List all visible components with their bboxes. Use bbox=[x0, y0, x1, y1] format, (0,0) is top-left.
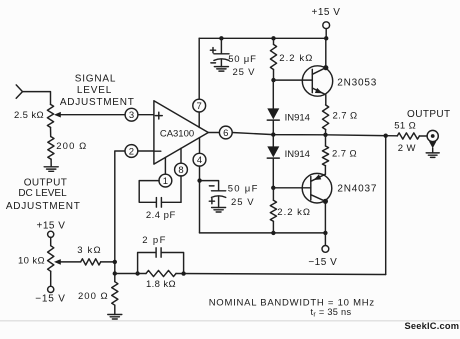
transistor Q1 2N3053 body bbox=[302, 66, 332, 96]
ground under R5 bbox=[108, 314, 122, 316]
wire R11 to jack bbox=[419, 135, 427, 137]
svg-text:7: 7 bbox=[197, 101, 202, 112]
svg-text:2 W: 2 W bbox=[398, 143, 416, 154]
svg-text:2: 2 bbox=[129, 146, 134, 157]
wire base node to Q2 bbox=[273, 187, 311, 189]
svg-text:ADJUSTMENT: ADJUSTMENT bbox=[60, 97, 135, 108]
diode D2 1N914 bbox=[267, 146, 279, 157]
wire jack to ground bbox=[432, 148, 434, 153]
capacitor C4 top plate bbox=[212, 190, 226, 192]
resistor R9 2.7 ohm bbox=[322, 146, 328, 166]
junction node wiper-R4 bbox=[113, 260, 117, 264]
potentiometer R1 2.5 k-ohm body bbox=[47, 104, 53, 127]
pin 6 bbox=[219, 126, 232, 139]
pin 7 bbox=[193, 99, 206, 112]
terminal -15V mid bbox=[322, 246, 329, 253]
svg-text:IN914: IN914 bbox=[285, 149, 310, 160]
svg-text:4: 4 bbox=[197, 155, 202, 166]
svg-text:+15 V: +15 V bbox=[37, 221, 66, 232]
potentiometer R3 wiper arrow bbox=[54, 259, 61, 265]
svg-text:50 μF: 50 μF bbox=[228, 54, 256, 65]
terminal +15V top bbox=[323, 22, 330, 29]
transistor Q1 emitter bbox=[312, 88, 326, 105]
wire R2 to ground bbox=[50, 159, 52, 167]
capacitor C1 curved plate bbox=[214, 59, 229, 61]
output jack J2 outer bbox=[427, 130, 438, 141]
wire R7 to base node bbox=[273, 70, 275, 81]
wire pin2 vertical line bbox=[115, 151, 125, 282]
junction rail Q1 bbox=[324, 36, 328, 40]
wire R4 to node bbox=[101, 261, 115, 263]
resistor R6 1.8 kohm bbox=[146, 270, 176, 276]
svg-text:3 kΩ: 3 kΩ bbox=[77, 245, 102, 256]
wire rail to C1 bbox=[220, 38, 222, 54]
svg-text:2N4037: 2N4037 bbox=[337, 184, 377, 195]
junction box left bbox=[135, 271, 139, 275]
svg-text:51 Ω: 51 Ω bbox=[394, 120, 416, 131]
svg-text:SIGNAL: SIGNAL bbox=[75, 73, 116, 84]
wire R9 to Q2 emitter bbox=[324, 166, 326, 175]
op-amp minus input sign bbox=[154, 150, 161, 152]
wire D2 to base node Q2 bbox=[272, 158, 274, 188]
capacitor C1 plus sign bbox=[210, 49, 215, 51]
wire D1 to junction bbox=[272, 120, 274, 135]
svg-text:2N3053: 2N3053 bbox=[337, 78, 377, 89]
junction rail R7 bbox=[271, 36, 275, 40]
junction rail C1 bbox=[219, 36, 223, 40]
pin 1 bbox=[159, 174, 172, 187]
output jack J2 sleeve bbox=[429, 141, 436, 148]
capacitor C4 curved plate bbox=[212, 196, 226, 198]
scan artifact line bbox=[0, 320, 460, 322]
ground under R2 bbox=[44, 166, 58, 168]
wire pin2 to op-amp bbox=[138, 150, 154, 152]
junction base Q1 bbox=[271, 78, 275, 82]
pin 2 bbox=[125, 145, 138, 158]
ground under jack bbox=[426, 152, 439, 154]
diode D1 1N914 bbox=[267, 108, 279, 119]
wire node to feedback box bbox=[115, 273, 146, 275]
svg-text:6: 6 bbox=[223, 128, 228, 139]
transistor Q2 emitter arrow bbox=[314, 174, 322, 180]
junction collector blob Q2 bbox=[323, 199, 328, 204]
svg-text:OUTPUT: OUTPUT bbox=[24, 177, 68, 188]
junction box right bbox=[181, 271, 185, 275]
svg-text:8: 8 bbox=[178, 165, 183, 176]
junction rail Q2 bbox=[323, 231, 327, 235]
junction emitters mid bbox=[323, 133, 327, 137]
wire C4 to ground bbox=[218, 197, 220, 208]
wire R6 to output feedback bbox=[176, 274, 386, 275]
junction collector blob Q1 bbox=[323, 65, 328, 70]
svg-text:50 μF: 50 μF bbox=[228, 183, 259, 194]
resistor R4 3 kohm bbox=[81, 259, 101, 265]
wire R10 to rail bbox=[272, 221, 274, 233]
resistor R10 2.2 kohm bbox=[270, 200, 276, 221]
svg-text:2.5 kΩ: 2.5 kΩ bbox=[14, 110, 44, 121]
resistor R2 200 ohm bbox=[48, 137, 54, 160]
wire R8 to node bbox=[325, 130, 327, 135]
wire pin8 to triangle bbox=[180, 148, 182, 163]
wire +15 terminal to pot R3 bbox=[50, 237, 52, 245]
wire node to R9 bbox=[325, 135, 327, 146]
wire pin4 to C4 bbox=[200, 181, 219, 191]
op-amp plus input sign bbox=[155, 115, 162, 117]
wire wiper to R4 bbox=[61, 261, 81, 263]
transistor Q1 emitter arrow bbox=[315, 88, 323, 93]
ground under C1 bbox=[214, 66, 228, 68]
capacitor C4 plus sign bbox=[209, 200, 214, 202]
transistor Q1 base bar bbox=[311, 69, 313, 92]
wire pin3 to op-amp bbox=[138, 114, 154, 116]
svg-text:IN914: IN914 bbox=[285, 112, 310, 123]
transistor Q1 collector bbox=[312, 38, 326, 74]
svg-text:2.4 pF: 2.4 pF bbox=[146, 210, 176, 221]
svg-text:2.7 Ω: 2.7 Ω bbox=[332, 149, 357, 160]
wire pin7 to triangle bbox=[198, 112, 200, 128]
resistor R5 200 ohm bbox=[112, 282, 118, 306]
ground under C4 bbox=[212, 207, 226, 209]
wire cap C2 to pin8 bbox=[162, 201, 181, 203]
wire pin6 to output node bbox=[232, 133, 397, 136]
transistor Q2 base bar bbox=[310, 177, 312, 200]
wire pin4 to triangle bbox=[199, 138, 201, 154]
transistor Q2 emitter bbox=[311, 174, 326, 181]
capacitor C2 2.4 pF bbox=[155, 198, 157, 208]
terminal -15V left bbox=[48, 286, 54, 292]
wire cap branch right bbox=[161, 253, 183, 274]
capacitor C3 2 pF bbox=[155, 248, 157, 257]
svg-text:+15 V: +15 V bbox=[312, 7, 341, 18]
resistor R11 51 ohm bbox=[397, 133, 419, 139]
wire feedback vertical bbox=[385, 136, 387, 275]
wire base node to Q1 bbox=[274, 79, 313, 81]
pin 8 bbox=[175, 163, 188, 176]
capacitor C1 minus sign bbox=[211, 62, 216, 64]
svg-text:1: 1 bbox=[163, 176, 168, 187]
transistor Q2 2N4037 body bbox=[302, 173, 332, 203]
wire rail to R7 bbox=[273, 38, 275, 44]
input jack J1 bbox=[16, 85, 22, 98]
svg-text:−15 V: −15 V bbox=[308, 257, 337, 268]
wire pin7 to rail bbox=[198, 38, 200, 99]
wire junction to D2 bbox=[272, 135, 274, 147]
svg-text:200 Ω: 200 Ω bbox=[78, 291, 109, 302]
resistor R7 2.2 kohm bbox=[270, 44, 276, 69]
wire rail to -15 terminal bbox=[324, 233, 326, 246]
svg-text:−15 V: −15 V bbox=[35, 293, 65, 304]
wire cap branch left bbox=[138, 253, 156, 274]
svg-text:3: 3 bbox=[129, 110, 134, 121]
svg-text:25 V: 25 V bbox=[233, 67, 256, 78]
svg-text:25 V: 25 V bbox=[231, 197, 255, 208]
svg-text:SeekIC.com: SeekIC.com bbox=[405, 321, 460, 331]
transistor Q2 collector bbox=[311, 195, 326, 233]
capacitor C4 minus sign bbox=[209, 185, 214, 187]
wire base node to R10 bbox=[272, 188, 274, 201]
wire pot R3 to -15 terminal bbox=[50, 271, 52, 286]
svg-text:2.7 Ω: 2.7 Ω bbox=[333, 111, 358, 122]
svg-text:OUTPUT: OUTPUT bbox=[407, 109, 451, 120]
svg-text:2 pF: 2 pF bbox=[142, 235, 167, 246]
wire pin1 to triangle bbox=[164, 158, 166, 175]
wire pot bottom to R2 bbox=[50, 127, 52, 136]
op-amp U1 CA3100 triangle bbox=[154, 101, 208, 164]
wire -15 rail bbox=[200, 232, 326, 234]
svg-text:ADJUSTMENT: ADJUSTMENT bbox=[6, 201, 81, 212]
resistor R8 2.7 ohm bbox=[323, 105, 329, 130]
svg-text:10 kΩ: 10 kΩ bbox=[18, 256, 45, 267]
wire pin8 down bbox=[180, 176, 182, 202]
junction base Q2 bbox=[271, 186, 275, 190]
junction rail R10 bbox=[271, 231, 275, 235]
wire +15 top rail bbox=[199, 37, 326, 39]
junction diodes mid bbox=[271, 132, 275, 136]
capacitor C1 top plate bbox=[214, 53, 229, 55]
junction output node bbox=[384, 134, 388, 138]
pin 3 bbox=[125, 108, 138, 121]
svg-text:2.2 kΩ: 2.2 kΩ bbox=[277, 207, 311, 218]
junction pin4 C4 bbox=[197, 178, 201, 182]
svg-text:200 Ω: 200 Ω bbox=[56, 141, 87, 152]
output jack J2 center bbox=[431, 134, 435, 138]
junction node feedback bbox=[113, 271, 117, 275]
potentiometer R3 10 kohm body bbox=[48, 246, 54, 272]
svg-text:2.2 kΩ: 2.2 kΩ bbox=[279, 53, 313, 64]
wire base node to D1 bbox=[272, 80, 274, 108]
wire input to potentiometer R1 bbox=[23, 92, 51, 105]
wire pin4 down to -15 rail bbox=[199, 166, 201, 233]
svg-text:DC LEVEL: DC LEVEL bbox=[18, 188, 67, 199]
wire R5 to ground bbox=[114, 305, 116, 314]
svg-text:LEVEL: LEVEL bbox=[77, 85, 112, 96]
potentiometer R1 wiper arrow bbox=[54, 112, 61, 118]
svg-text:1.8 kΩ: 1.8 kΩ bbox=[146, 279, 176, 290]
svg-text:CA3100: CA3100 bbox=[160, 128, 194, 139]
pin 4 bbox=[193, 153, 206, 166]
wire C1 to ground bbox=[220, 60, 222, 67]
wire apex to pin6 bbox=[208, 132, 219, 134]
wire wiper to pin 3 bbox=[61, 114, 125, 116]
wire +15 terminal to rail bbox=[325, 29, 327, 39]
terminal +15V left bbox=[48, 231, 54, 237]
wire pin1 loop bbox=[139, 181, 159, 203]
